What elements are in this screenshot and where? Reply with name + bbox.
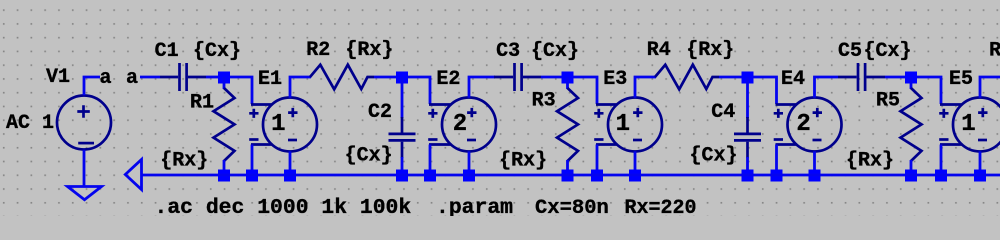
svg-text:E2: E2 — [436, 68, 460, 91]
op-amp U1 VCVS E1 — [249, 98, 317, 152]
svg-text:R2: R2 — [306, 39, 330, 62]
junction R1-rail — [218, 170, 230, 182]
svg-text:AC 1: AC 1 — [6, 112, 54, 135]
junction R3 rail — [562, 170, 574, 182]
wire n5 to E5 control + — [917, 77, 941, 104]
junction E1 control rail — [246, 170, 258, 182]
voltage source V1 — [57, 96, 111, 150]
wire C3 to node n3 — [541, 76, 563, 79]
svg-text:{Cx}: {Cx} — [864, 40, 912, 63]
wire E2 output bottom — [468, 151, 471, 172]
node n2 junction — [396, 72, 408, 84]
wire R2 to node n2 — [374, 76, 398, 79]
svg-text:{Rx}: {Rx} — [846, 149, 894, 172]
wire n1 to E1 control + — [230, 77, 252, 104]
wire n4 to E4 control + — [753, 77, 777, 104]
svg-text:1: 1 — [271, 111, 285, 138]
junction E4 bottom rail — [809, 170, 821, 182]
svg-text:Cx=80n: Cx=80n — [535, 197, 609, 216]
svg-text:V1: V1 — [46, 66, 70, 89]
wire n3 to E3 control + — [573, 77, 597, 104]
svg-text:{Cx}: {Cx} — [690, 145, 738, 168]
svg-text:Rx=220: Rx=220 — [625, 197, 697, 216]
wire C5 to node n5 — [885, 76, 906, 79]
wire E2 output top — [469, 77, 495, 98]
node n3 junction — [562, 72, 574, 84]
wire E1 output bottom — [289, 151, 292, 172]
op-amp U4 VCVS E4 — [774, 98, 842, 152]
capacitor C5 — [838, 63, 885, 91]
svg-text:a: a — [100, 67, 112, 90]
op-amp U3 VCVS E3 — [594, 98, 662, 152]
svg-text:C3: C3 — [496, 40, 520, 63]
svg-text:E3: E3 — [603, 68, 627, 91]
wire E4 output top — [815, 77, 839, 98]
capacitor C1 — [160, 63, 206, 91]
svg-text:{Cx}: {Cx} — [531, 40, 579, 63]
junction E5 control rail — [935, 170, 947, 182]
resistor R5 — [901, 77, 922, 172]
svg-text:C5: C5 — [838, 40, 862, 63]
capacitor C4 — [734, 77, 761, 172]
wire E2 control - to rail — [429, 145, 432, 173]
svg-text:C4: C4 — [711, 101, 735, 124]
svg-text:2: 2 — [796, 111, 810, 138]
wire E3 output bottom — [634, 151, 637, 172]
junction E2 bottom rail — [463, 170, 475, 182]
svg-text:{Cx}: {Cx} — [345, 145, 393, 168]
svg-text:2: 2 — [453, 111, 467, 138]
node n4 junction — [742, 72, 754, 84]
svg-text:.param: .param — [436, 196, 513, 216]
node n1 junction — [218, 72, 230, 84]
svg-text:{Rx}: {Rx} — [345, 39, 393, 62]
junction C2 rail — [396, 170, 408, 182]
svg-text:{Rx}: {Rx} — [160, 149, 208, 172]
wire V1 bottom to ground — [83, 150, 86, 186]
svg-text:R4: R4 — [647, 39, 671, 62]
junction E1 bottom rail — [284, 170, 296, 182]
svg-text:a: a — [126, 67, 138, 90]
svg-text:{Rx}: {Rx} — [686, 39, 734, 62]
svg-text:R3: R3 — [532, 90, 556, 113]
node n5 junction — [905, 72, 917, 84]
wire E5 output top — [980, 77, 1000, 98]
wire E4 output bottom — [813, 151, 816, 172]
junction E3 bottom rail — [629, 170, 641, 182]
wire V1 top to node a — [84, 77, 100, 95]
wire n2 to E2 control + — [408, 77, 430, 104]
svg-text:{Rx}: {Rx} — [499, 149, 547, 172]
junction E3 control rail — [591, 170, 603, 182]
ground — [68, 187, 102, 200]
wire E5 output bottom — [979, 151, 982, 172]
junction E2 control rail — [424, 170, 436, 182]
wire E1 control - to rail — [251, 145, 254, 173]
svg-text:C2: C2 — [368, 101, 392, 124]
svg-text:E1: E1 — [258, 68, 282, 91]
svg-text:E4: E4 — [781, 68, 805, 91]
op-amp U2 VCVS E2 — [428, 98, 496, 152]
wire E4 control - to rail — [775, 145, 778, 173]
port arrow left end of rail — [125, 160, 141, 190]
wire node a to C1 — [140, 76, 160, 79]
junction C4 rail — [742, 170, 754, 182]
svg-text:.ac dec 1000 1k 100k: .ac dec 1000 1k 100k — [155, 196, 412, 216]
junction E5 bottom rail — [974, 170, 986, 182]
svg-text:R6: R6 — [989, 40, 1000, 63]
svg-text:{Cx}: {Cx} — [193, 40, 241, 63]
junction E4 control rail — [771, 170, 783, 182]
resistor R4 — [655, 65, 719, 90]
wire E5 control - to rail — [940, 145, 943, 173]
capacitor C3 — [494, 63, 541, 91]
junction R5 rail — [905, 170, 917, 182]
op-amp U5 VCVS E5 — [939, 98, 1000, 152]
svg-text:1: 1 — [616, 111, 630, 138]
svg-text:R5: R5 — [876, 90, 900, 113]
svg-text:R1: R1 — [190, 92, 214, 115]
resistor R2 — [310, 65, 374, 90]
svg-text:C1: C1 — [155, 40, 179, 63]
wire E3 output top — [635, 77, 656, 98]
wire C1 to node n1 — [206, 76, 220, 79]
wire E1 output top — [290, 77, 311, 98]
svg-text:1: 1 — [961, 111, 975, 138]
wire E3 control - to rail — [596, 145, 599, 173]
svg-text:E5: E5 — [949, 68, 973, 91]
wire ground rail — [142, 174, 1000, 177]
resistor R3 — [557, 77, 578, 172]
wire R4 to node n4 — [719, 76, 743, 79]
capacitor C2 — [389, 77, 416, 172]
resistor R1 — [214, 77, 235, 172]
